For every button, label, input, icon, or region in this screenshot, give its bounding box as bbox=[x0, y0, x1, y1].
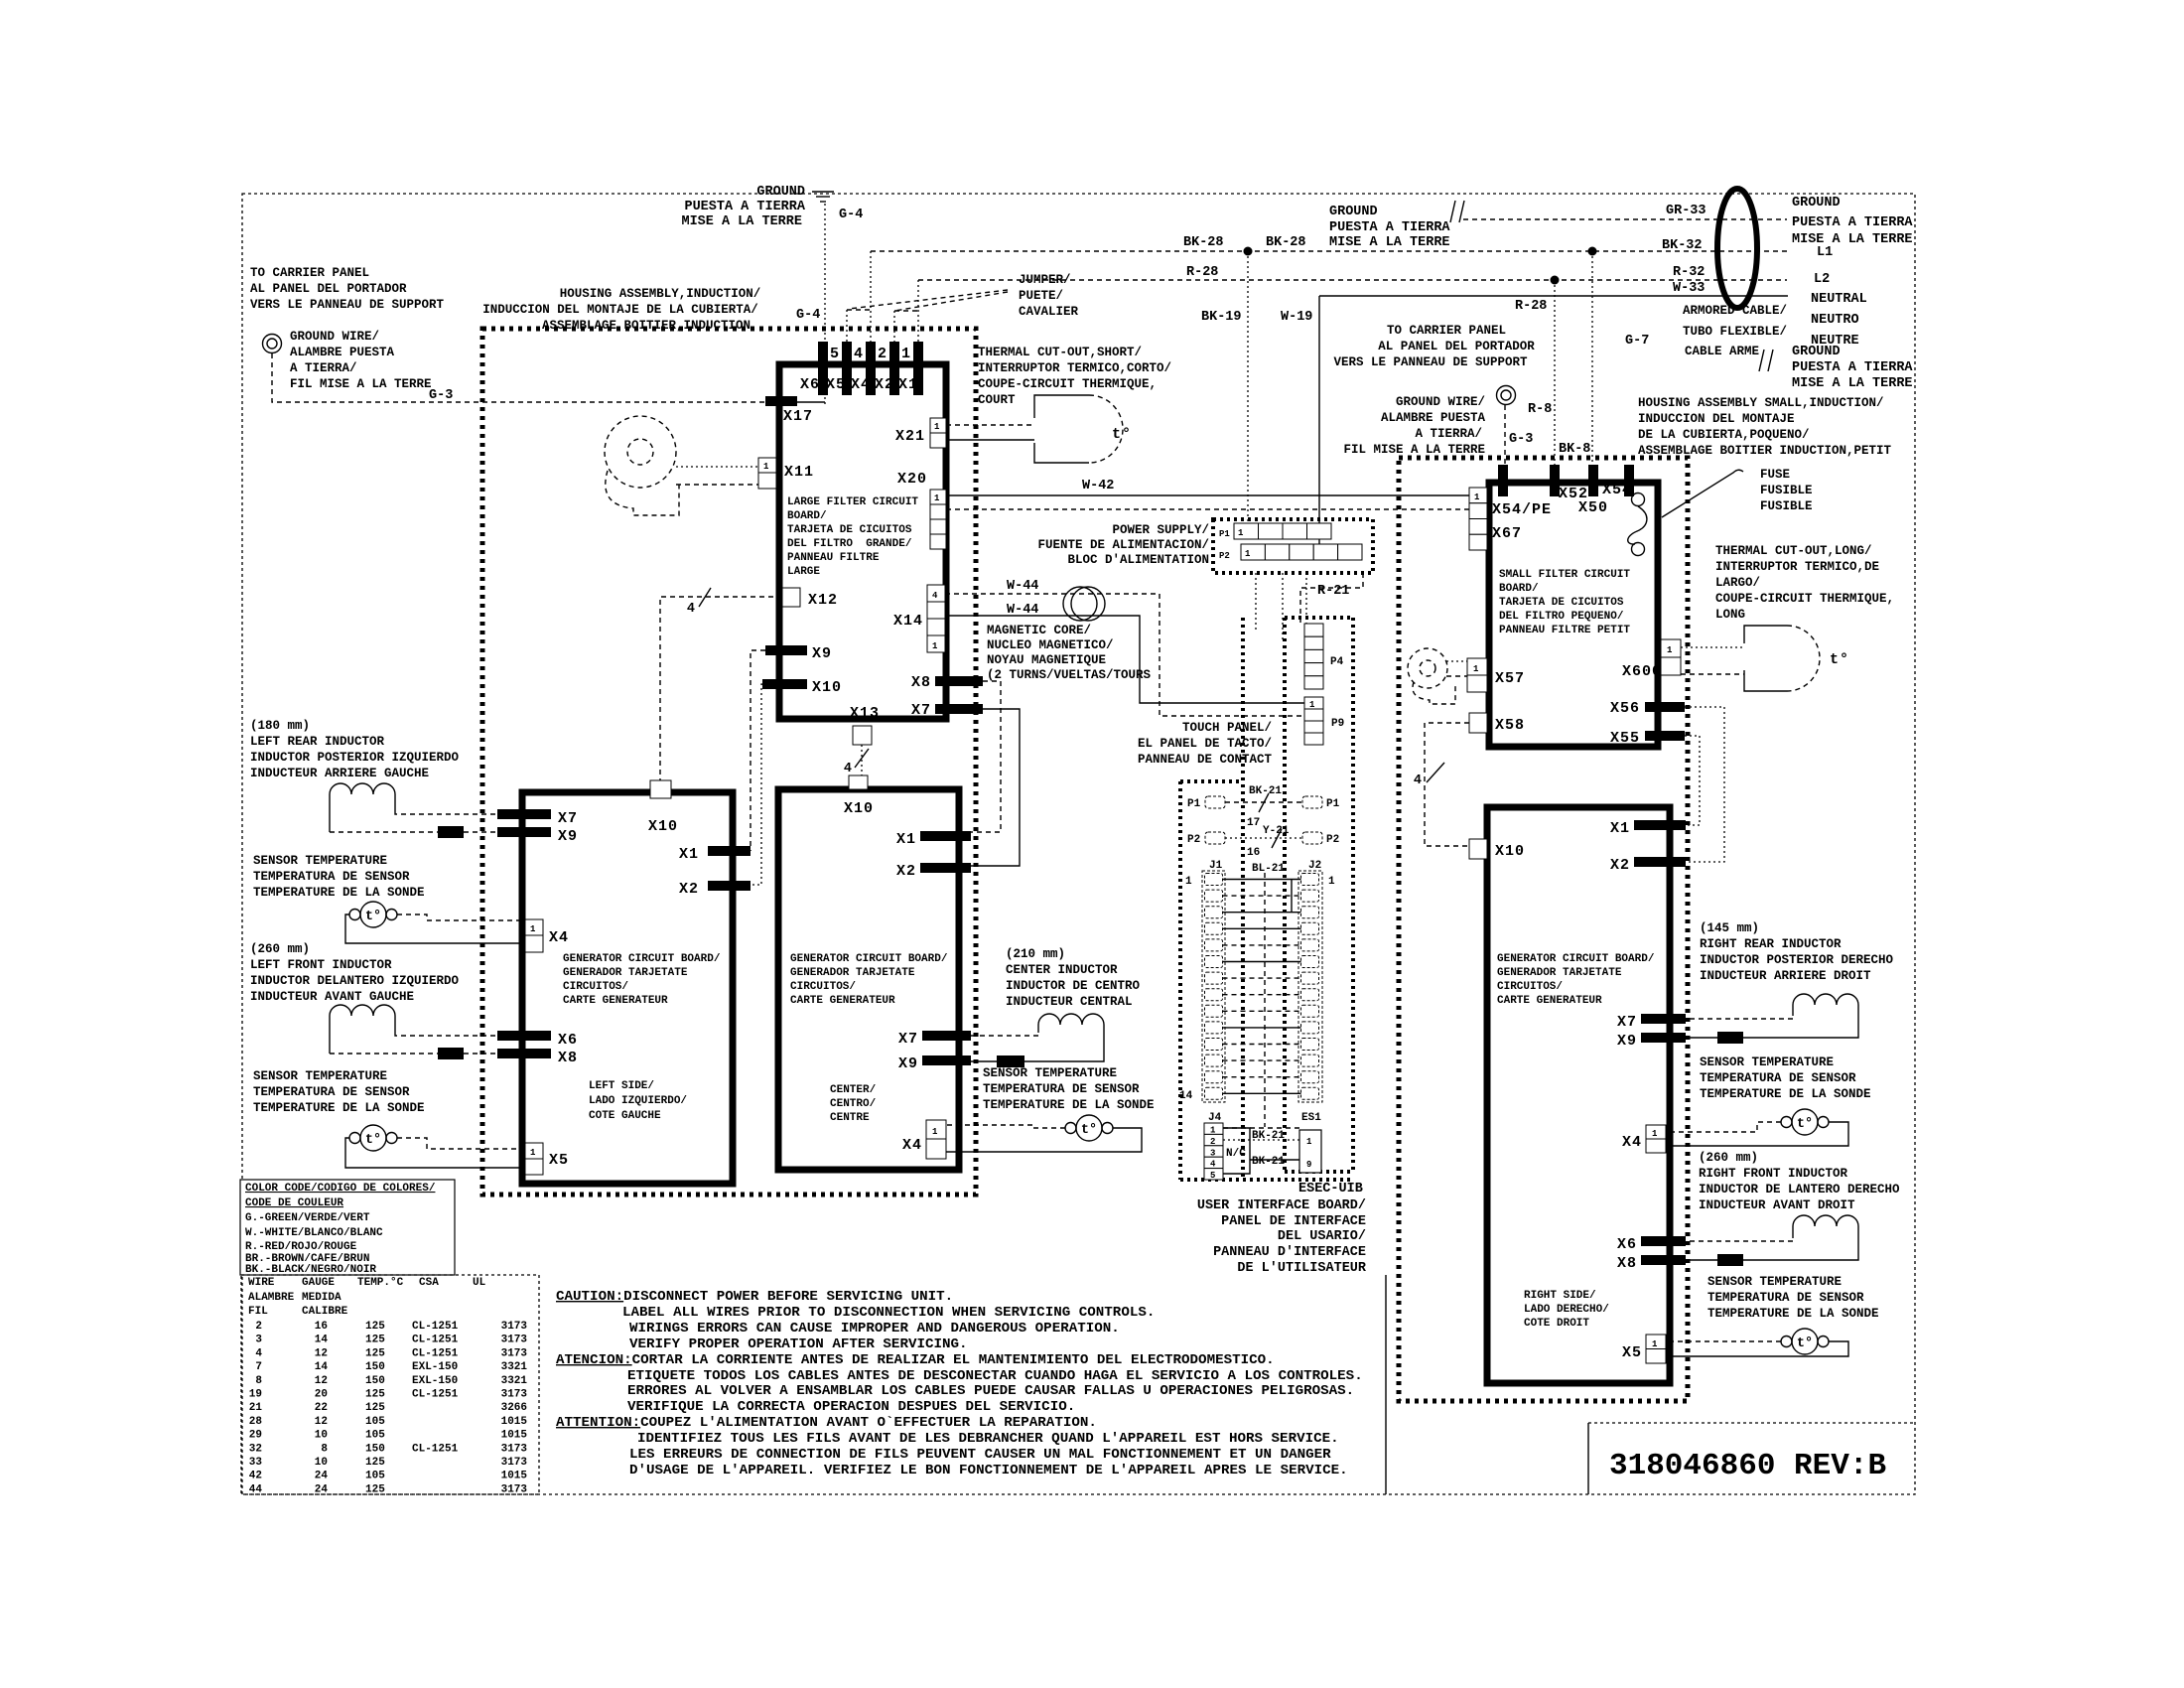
label center inductor bbox=[1006, 947, 1141, 1009]
svg-text:THERMAL CUT-OUT,SHORT/: THERMAL CUT-OUT,SHORT/ bbox=[978, 346, 1142, 359]
svg-text:G-3: G-3 bbox=[429, 388, 453, 403]
svg-text:1015: 1015 bbox=[501, 1416, 528, 1428]
svg-text:X55: X55 bbox=[1610, 730, 1640, 747]
svg-text:DE LA CUBIERTA,POQUENO/: DE LA CUBIERTA,POQUENO/ bbox=[1638, 428, 1810, 442]
label sensor temperature right 2 bbox=[1707, 1275, 1879, 1321]
armored cable oval bbox=[1717, 189, 1757, 308]
svg-text:CL-1251: CL-1251 bbox=[412, 1389, 459, 1401]
svg-text:1: 1 bbox=[1210, 1126, 1216, 1136]
svg-text:G.-GREEN/VERDE/VERT: G.-GREEN/VERDE/VERT bbox=[245, 1212, 370, 1224]
svg-text:CL-1251: CL-1251 bbox=[412, 1335, 459, 1346]
svg-text:125: 125 bbox=[365, 1335, 385, 1346]
svg-text:19: 19 bbox=[249, 1389, 262, 1401]
wire X600 to thermal long lower bbox=[1681, 673, 1744, 675]
svg-text:t°: t° bbox=[1797, 1117, 1813, 1132]
svg-text:9: 9 bbox=[1306, 1160, 1311, 1170]
svg-text:3173: 3173 bbox=[501, 1483, 528, 1495]
svg-text:TO CARRIER PANEL: TO CARRIER PANEL bbox=[250, 266, 369, 280]
svg-text:COURT: COURT bbox=[978, 393, 1016, 407]
wire J1-J2 ribbon bbox=[1223, 880, 1301, 1094]
svg-text:BK.-BLACK/NEGRO/NOIR: BK.-BLACK/NEGRO/NOIR bbox=[245, 1264, 376, 1276]
svg-text:PANNEAU FILTRE: PANNEAU FILTRE bbox=[787, 552, 880, 564]
svg-text:WIRE: WIRE bbox=[248, 1277, 275, 1289]
svg-text:EXL-150: EXL-150 bbox=[412, 1375, 458, 1387]
wire sensor right2 to X5 lower bbox=[1666, 1341, 1848, 1356]
svg-text:X10: X10 bbox=[648, 818, 678, 835]
connector P4 touch panel bbox=[1304, 624, 1323, 689]
wire W-42 companion dashed bbox=[946, 508, 1469, 510]
sensor t center bbox=[1065, 1115, 1113, 1141]
svg-text:1: 1 bbox=[1238, 528, 1244, 538]
svg-text:3173: 3173 bbox=[501, 1443, 528, 1455]
wire gauge table bbox=[241, 1275, 539, 1495]
svg-text:W-42: W-42 bbox=[1082, 479, 1114, 493]
fan blower right bbox=[1408, 648, 1455, 704]
svg-text:INDUCTEUR AVANT GAUCHE: INDUCTEUR AVANT GAUCHE bbox=[250, 990, 414, 1004]
wire sensor2 to X5 lower bbox=[345, 1138, 525, 1168]
housing assembly induction dotted enclosure bbox=[482, 329, 976, 1195]
connector bar X8 bbox=[935, 676, 983, 686]
sensor t right 1 bbox=[1781, 1109, 1829, 1135]
label touch panel bbox=[1138, 721, 1273, 767]
connector ES1 bbox=[1299, 1130, 1321, 1173]
color code table bbox=[240, 1180, 455, 1276]
svg-text:X1: X1 bbox=[679, 846, 699, 863]
svg-text:X9: X9 bbox=[1617, 1033, 1637, 1050]
svg-text:SENSOR TEMPERATURE: SENSOR TEMPERATURE bbox=[253, 1069, 387, 1083]
pin bar X52 bbox=[1550, 465, 1560, 496]
connector bar X17 bbox=[765, 396, 797, 406]
wire coil center leads bbox=[971, 1025, 1104, 1061]
label small filter board bbox=[1499, 569, 1630, 636]
wire X21 to thermal short solid bbox=[946, 439, 1034, 441]
wire slash 17 bbox=[1247, 793, 1269, 829]
connector bar X9 center bbox=[922, 1055, 971, 1065]
wire X9 to left board X1 bbox=[751, 650, 765, 851]
touch panel dotted column bbox=[1241, 618, 1245, 1180]
junction dot BK line left bbox=[1244, 247, 1253, 256]
wire R-28 / L2 dashed bbox=[918, 279, 1787, 281]
svg-text:X10: X10 bbox=[844, 800, 874, 817]
ground wire circle symbol left bbox=[263, 335, 282, 353]
svg-text:125: 125 bbox=[365, 1347, 385, 1359]
svg-text:HOUSING ASSEMBLY,INDUCTION/: HOUSING ASSEMBLY,INDUCTION/ bbox=[560, 287, 761, 301]
svg-text:INDUCTOR DELANTERO IZQUIERDO: INDUCTOR DELANTERO IZQUIERDO bbox=[250, 974, 460, 988]
pin bar X50 bbox=[1588, 465, 1598, 496]
ground double-bar symbol G-7 bbox=[1759, 350, 1773, 371]
wire W-33 neutral solid bbox=[1319, 295, 1788, 297]
svg-text:X1: X1 bbox=[1610, 820, 1630, 837]
svg-text:PANNEAU DE CONTACT: PANNEAU DE CONTACT bbox=[1138, 753, 1273, 767]
svg-text:TO CARRIER PANEL: TO CARRIER PANEL bbox=[1387, 324, 1506, 338]
svg-text:32: 32 bbox=[249, 1443, 262, 1455]
svg-text:INTERRUPTOR TERMICO,DE: INTERRUPTOR TERMICO,DE bbox=[1715, 560, 1879, 574]
svg-text:CIRCUITOS/: CIRCUITOS/ bbox=[1497, 981, 1563, 993]
label housing assembly small bbox=[1638, 396, 1892, 458]
svg-text:X54/PE: X54/PE bbox=[1492, 501, 1552, 518]
svg-text:3266: 3266 bbox=[501, 1402, 527, 1414]
ferrite bead left front bbox=[438, 1048, 464, 1059]
svg-text:IDENTIFIEZ TOUS LES FILS AVANT: IDENTIFIEZ TOUS LES FILS AVANT DE LES DE… bbox=[637, 1431, 1339, 1447]
svg-text:X56: X56 bbox=[1610, 700, 1640, 717]
connector X54/PE cells bbox=[1469, 488, 1487, 550]
svg-text:1: 1 bbox=[1667, 645, 1673, 655]
svg-text:3173: 3173 bbox=[501, 1321, 528, 1333]
svg-text:X57: X57 bbox=[1495, 670, 1525, 687]
svg-text:INDUCTOR DE CENTRO: INDUCTOR DE CENTRO bbox=[1006, 979, 1141, 993]
svg-text:PUESTA A TIERRA: PUESTA A TIERRA bbox=[1792, 360, 1913, 375]
svg-text:INDUCTEUR ARRIERE GAUCHE: INDUCTEUR ARRIERE GAUCHE bbox=[250, 767, 429, 780]
svg-text:1: 1 bbox=[1185, 876, 1192, 888]
label armored cable bbox=[1683, 304, 1787, 358]
housing assembly small dotted enclosure bbox=[1399, 458, 1688, 1401]
svg-text:VERS LE PANNEAU DE SUPPORT: VERS LE PANNEAU DE SUPPORT bbox=[250, 298, 445, 312]
inductor left front coil bbox=[330, 1005, 395, 1016]
wire BK-19 vertical to power supply bbox=[1247, 251, 1249, 524]
svg-text:1: 1 bbox=[1474, 492, 1480, 502]
svg-text:3173: 3173 bbox=[501, 1347, 528, 1359]
svg-text:R-28: R-28 bbox=[1186, 265, 1218, 280]
svg-text:CENTER INDUCTOR: CENTER INDUCTOR bbox=[1006, 963, 1118, 977]
svg-text:LABEL ALL WIRES PRIOR TO DISCO: LABEL ALL WIRES PRIOR TO DISCONNECTION W… bbox=[622, 1305, 1155, 1321]
wire X56 to X2 right bbox=[1685, 707, 1724, 862]
svg-text:TEMPERATURA DE SENSOR: TEMPERATURA DE SENSOR bbox=[983, 1082, 1140, 1096]
svg-text:4: 4 bbox=[844, 762, 852, 776]
connector bar X2 center bbox=[920, 863, 971, 873]
svg-text:10: 10 bbox=[315, 1457, 328, 1469]
svg-text:LARGE: LARGE bbox=[787, 566, 820, 578]
label left side bbox=[589, 1080, 687, 1122]
ground wire circle symbol right bbox=[1497, 386, 1516, 405]
connector X10 left board bbox=[650, 780, 671, 798]
fuse symbol bbox=[1628, 470, 1743, 555]
svg-text:G-7: G-7 bbox=[1625, 334, 1649, 349]
label to carrier panel left bbox=[250, 266, 445, 312]
connector X600 bbox=[1661, 639, 1681, 675]
svg-text:X2: X2 bbox=[679, 881, 699, 898]
svg-text:14: 14 bbox=[315, 1335, 329, 1346]
svg-text:ALAMBRE PUESTA: ALAMBRE PUESTA bbox=[1381, 411, 1486, 425]
svg-text:X58: X58 bbox=[1495, 717, 1525, 734]
wire X7 to center board X2 bbox=[971, 709, 1020, 866]
connector bar X1 center bbox=[920, 831, 971, 841]
label user interface board bbox=[1197, 1198, 1367, 1276]
connector bar X7 center bbox=[922, 1031, 971, 1041]
svg-text:COUPE-CIRCUIT THERMIQUE,: COUPE-CIRCUIT THERMIQUE, bbox=[1715, 592, 1894, 606]
label thermal cut-out short bbox=[978, 346, 1171, 407]
svg-text:1: 1 bbox=[934, 493, 940, 503]
inductor left rear coil bbox=[330, 783, 395, 794]
svg-text:VERIFY PROPER OPERATION AFTER: VERIFY PROPER OPERATION AFTER SERVICING. bbox=[629, 1336, 968, 1352]
wire jumper pointer lines bbox=[849, 290, 1008, 309]
svg-text:W-44: W-44 bbox=[1007, 579, 1038, 594]
svg-text:BL-21: BL-21 bbox=[1252, 863, 1285, 875]
svg-text:INTERRUPTOR TERMICO,CORTO/: INTERRUPTOR TERMICO,CORTO/ bbox=[978, 361, 1171, 375]
svg-text:1: 1 bbox=[1306, 1137, 1312, 1147]
svg-text:GROUND: GROUND bbox=[1792, 345, 1841, 359]
svg-text:ERRORES AL VOLVER A ENSAMBLAR: ERRORES AL VOLVER A ENSAMBLAR LOS CABLES… bbox=[627, 1383, 1354, 1399]
rev box bbox=[1588, 1423, 1915, 1494]
generator circuit board left bbox=[522, 792, 733, 1184]
wire power supply to touch panel b bbox=[1282, 573, 1284, 642]
svg-text:G-4: G-4 bbox=[796, 308, 820, 323]
svg-text:LONG: LONG bbox=[1715, 608, 1745, 622]
svg-text:MISE A LA TERRE: MISE A LA TERRE bbox=[1792, 376, 1913, 391]
connector bar X6 left bbox=[497, 1031, 551, 1041]
svg-text:44: 44 bbox=[249, 1483, 263, 1495]
label generator board center bbox=[790, 953, 948, 1007]
svg-text:CABLE ARME: CABLE ARME bbox=[1685, 345, 1759, 358]
svg-text:GROUND: GROUND bbox=[1792, 196, 1841, 211]
svg-text:W-33: W-33 bbox=[1673, 281, 1705, 296]
svg-text:3173: 3173 bbox=[501, 1389, 528, 1401]
svg-text:ETIQUETE TODOS LOS CABLES ANTE: ETIQUETE TODOS LOS CABLES ANTES DE DESCO… bbox=[627, 1368, 1363, 1384]
svg-text:CIRCUITOS/: CIRCUITOS/ bbox=[790, 981, 856, 993]
svg-text:LEFT SIDE/: LEFT SIDE/ bbox=[589, 1080, 654, 1092]
thermal cut-out short symbol bbox=[1034, 395, 1132, 463]
wire slash 4 marker lower bbox=[844, 749, 869, 776]
svg-text:PANNEAU FILTRE PETIT: PANNEAU FILTRE PETIT bbox=[1499, 625, 1630, 636]
connector bar X9 bbox=[765, 645, 807, 655]
svg-text:X20: X20 bbox=[897, 471, 927, 488]
svg-text:CENTER/: CENTER/ bbox=[830, 1084, 877, 1096]
svg-text:AL PANEL DEL PORTADOR: AL PANEL DEL PORTADOR bbox=[1378, 340, 1535, 353]
wire power supply to touch panel a bbox=[1255, 573, 1257, 630]
sensor t left 1 bbox=[349, 902, 397, 927]
svg-text:P2: P2 bbox=[1219, 551, 1230, 561]
svg-text:8: 8 bbox=[255, 1375, 262, 1387]
wire W neutral vertical to power supply bbox=[1318, 296, 1320, 545]
svg-text:X5: X5 bbox=[1622, 1344, 1642, 1361]
connector X58 bbox=[1469, 713, 1487, 733]
ferrite bead left rear bbox=[438, 826, 464, 838]
svg-text:CENTRO/: CENTRO/ bbox=[830, 1098, 877, 1110]
wire coil left front leads bbox=[330, 1016, 497, 1054]
svg-text:INDUCCION DEL MONTAJE: INDUCCION DEL MONTAJE bbox=[1638, 412, 1795, 426]
svg-text:PANNEAU D'INTERFACE: PANNEAU D'INTERFACE bbox=[1213, 1245, 1366, 1260]
label ground wire right bbox=[1343, 395, 1485, 457]
pin bar PE small bbox=[1498, 465, 1508, 496]
svg-text:BOARD/: BOARD/ bbox=[1499, 583, 1539, 595]
svg-text:NEUTRAL: NEUTRAL bbox=[1811, 292, 1867, 307]
svg-text:4: 4 bbox=[932, 591, 938, 601]
wire sensor2 to X5 upper bbox=[397, 1138, 525, 1149]
svg-text:TEMPERATURE DE LA SONDE: TEMPERATURE DE LA SONDE bbox=[983, 1098, 1155, 1112]
svg-text:1: 1 bbox=[1473, 664, 1479, 674]
wire R-21 bbox=[1300, 573, 1363, 624]
pin bar X54 bbox=[1624, 465, 1634, 496]
svg-text:PANEL DE INTERFACE: PANEL DE INTERFACE bbox=[1221, 1214, 1366, 1229]
svg-text:WIRINGS ERRORS CAN CAUSE IMPRO: WIRINGS ERRORS CAN CAUSE IMPROPER AND DA… bbox=[629, 1321, 1120, 1336]
svg-text:DEL FILTRO GRANDE/: DEL FILTRO GRANDE/ bbox=[787, 538, 912, 550]
svg-text:150: 150 bbox=[365, 1361, 385, 1373]
wire coil right rear leads bbox=[1686, 1005, 1858, 1038]
svg-text:GENERATOR CIRCUIT BOARD/: GENERATOR CIRCUIT BOARD/ bbox=[790, 953, 948, 965]
svg-text:CL-1251: CL-1251 bbox=[412, 1347, 459, 1359]
svg-text:X50: X50 bbox=[1578, 499, 1608, 516]
svg-text:t°: t° bbox=[1112, 426, 1132, 443]
svg-text:ARMORED CABLE/: ARMORED CABLE/ bbox=[1683, 304, 1787, 318]
svg-text:NEUTRO: NEUTRO bbox=[1811, 313, 1859, 328]
svg-text:t°: t° bbox=[1081, 1123, 1097, 1138]
svg-text:GENERADOR TARJETATE: GENERADOR TARJETATE bbox=[1497, 967, 1622, 979]
svg-text:RIGHT FRONT INDUCTOR: RIGHT FRONT INDUCTOR bbox=[1699, 1167, 1848, 1181]
svg-text:(2 TURNS/VUELTAS/TOURS: (2 TURNS/VUELTAS/TOURS bbox=[987, 668, 1152, 682]
svg-text:FIL: FIL bbox=[248, 1306, 268, 1318]
svg-text:MISE A LA TERRE: MISE A LA TERRE bbox=[1329, 235, 1450, 250]
svg-text:VERS LE PANNEAU DE SUPPORT: VERS LE PANNEAU DE SUPPORT bbox=[1333, 355, 1528, 369]
svg-text:29: 29 bbox=[249, 1430, 262, 1442]
label large filter board bbox=[787, 496, 918, 578]
svg-text:G-3: G-3 bbox=[1509, 432, 1533, 447]
svg-text:CL-1251: CL-1251 bbox=[412, 1321, 459, 1333]
svg-text:NUCLEO MAGNETICO/: NUCLEO MAGNETICO/ bbox=[987, 638, 1114, 652]
svg-text:X1: X1 bbox=[898, 376, 918, 393]
svg-text:GROUND: GROUND bbox=[756, 185, 805, 200]
svg-text:X6: X6 bbox=[1617, 1236, 1637, 1253]
wire sensor1 to X4 lower bbox=[345, 914, 525, 943]
svg-text:D'USAGE DE L'APPAREIL. VERIFIE: D'USAGE DE L'APPAREIL. VERIFIEZ LE BON F… bbox=[629, 1463, 1348, 1478]
svg-text:LADO IZQUIERDO/: LADO IZQUIERDO/ bbox=[589, 1095, 687, 1107]
svg-text:LADO DERECHO/: LADO DERECHO/ bbox=[1524, 1304, 1609, 1316]
svg-text:BK-8: BK-8 bbox=[1559, 442, 1590, 457]
connector J1 strip bbox=[1202, 871, 1225, 1102]
svg-text:MAGNETIC CORE/: MAGNETIC CORE/ bbox=[987, 624, 1091, 637]
svg-text:1: 1 bbox=[1309, 700, 1315, 710]
svg-text:TUBO FLEXIBLE/: TUBO FLEXIBLE/ bbox=[1683, 325, 1787, 339]
svg-text:2: 2 bbox=[1210, 1137, 1215, 1147]
connector X5 left bbox=[525, 1143, 543, 1175]
svg-text:1: 1 bbox=[1652, 1129, 1658, 1139]
svg-text:SENSOR TEMPERATURE: SENSOR TEMPERATURE bbox=[1700, 1055, 1834, 1069]
label power supply bbox=[1037, 523, 1209, 567]
svg-text:X4: X4 bbox=[851, 376, 871, 393]
pin bar X2 bbox=[889, 342, 899, 395]
svg-text:125: 125 bbox=[365, 1389, 385, 1401]
svg-text:GR-33: GR-33 bbox=[1666, 204, 1706, 218]
svg-text:SENSOR TEMPERATURE: SENSOR TEMPERATURE bbox=[1707, 1275, 1842, 1289]
wire fan to X11 upper bbox=[676, 466, 758, 468]
svg-text:X12: X12 bbox=[808, 592, 838, 609]
svg-text:1: 1 bbox=[901, 346, 911, 362]
svg-text:22: 22 bbox=[315, 1402, 328, 1414]
svg-text:(210 mm): (210 mm) bbox=[1006, 947, 1065, 961]
svg-text:1: 1 bbox=[763, 462, 769, 472]
wire W-42 solid bbox=[946, 494, 1469, 496]
connector bar X10 bbox=[762, 679, 807, 689]
connector X13 bbox=[853, 726, 872, 745]
svg-text:TEMP.°C: TEMP.°C bbox=[357, 1277, 404, 1289]
svg-text:X6: X6 bbox=[558, 1032, 578, 1049]
svg-text:3321: 3321 bbox=[501, 1361, 528, 1373]
connector bar X7 right bbox=[1641, 1014, 1686, 1024]
svg-text:1015: 1015 bbox=[501, 1471, 528, 1482]
connector bar X6 right bbox=[1641, 1236, 1686, 1246]
svg-text:P1: P1 bbox=[1219, 529, 1230, 539]
svg-text:USER INTERFACE BOARD/: USER INTERFACE BOARD/ bbox=[1197, 1198, 1366, 1213]
svg-text:GENERATOR CIRCUIT BOARD/: GENERATOR CIRCUIT BOARD/ bbox=[1497, 953, 1655, 965]
svg-text:X9: X9 bbox=[558, 828, 578, 845]
label left front inductor bbox=[250, 942, 460, 1004]
touch panel dotted enclosure bbox=[1285, 618, 1353, 1172]
svg-text:GENERADOR TARJETATE: GENERADOR TARJETATE bbox=[563, 967, 688, 979]
svg-text:CAVALIER: CAVALIER bbox=[1019, 305, 1079, 319]
wire X58 to X10 right bbox=[1425, 723, 1469, 846]
svg-text:COLOR CODE/CODIGO DE COLORES/: COLOR CODE/CODIGO DE COLORES/ bbox=[245, 1183, 436, 1195]
svg-text:ESEC-UIB: ESEC-UIB bbox=[1298, 1182, 1363, 1196]
connector X14 bbox=[927, 585, 945, 652]
svg-text:INDUCTOR POSTERIOR IZQUIERDO: INDUCTOR POSTERIOR IZQUIERDO bbox=[250, 751, 460, 765]
svg-text:BLOC D'ALIMENTATION: BLOC D'ALIMENTATION bbox=[1067, 553, 1209, 567]
svg-text:5: 5 bbox=[1210, 1171, 1215, 1181]
svg-text:P2: P2 bbox=[1326, 834, 1339, 846]
svg-text:42: 42 bbox=[249, 1471, 262, 1482]
svg-text:X13: X13 bbox=[850, 705, 880, 722]
svg-text:LES ERREURS DE CONNECTION DE F: LES ERREURS DE CONNECTION DE FILS PEUVEN… bbox=[629, 1447, 1331, 1463]
svg-text:A TIERRA/: A TIERRA/ bbox=[290, 361, 357, 375]
wire sensor center to X4 lower bbox=[946, 1128, 1142, 1152]
svg-text:PUETE/: PUETE/ bbox=[1019, 289, 1063, 303]
label ground right bbox=[1792, 345, 1913, 391]
svg-text:GROUND WIRE/: GROUND WIRE/ bbox=[290, 330, 379, 344]
svg-text:ATTENTION:COUPEZ L'ALIMENTATIO: ATTENTION:COUPEZ L'ALIMENTATION AVANT O`… bbox=[556, 1415, 1097, 1431]
svg-text:TEMPERATURE DE LA SONDE: TEMPERATURE DE LA SONDE bbox=[253, 1101, 425, 1115]
generator circuit board center bbox=[778, 789, 959, 1170]
svg-text:t°: t° bbox=[365, 1133, 381, 1148]
svg-text:X6: X6 bbox=[800, 376, 820, 393]
wire J4 pin1 to ES1 dashed bbox=[1223, 1127, 1299, 1129]
svg-text:AL PANEL DEL PORTADOR: AL PANEL DEL PORTADOR bbox=[250, 282, 407, 296]
svg-text:ALAMBRE PUESTA: ALAMBRE PUESTA bbox=[290, 346, 395, 359]
svg-text:W.-WHITE/BLANCO/BLANC: W.-WHITE/BLANCO/BLANC bbox=[245, 1227, 383, 1239]
wire sensor right1 to X4 upper bbox=[1666, 1122, 1781, 1132]
wire X55 to X1 right bbox=[1685, 736, 1700, 825]
svg-text:INDUCTEUR CENTRAL: INDUCTEUR CENTRAL bbox=[1006, 995, 1133, 1009]
svg-text:FUSIBLE: FUSIBLE bbox=[1760, 499, 1813, 513]
svg-text:(145 mm): (145 mm) bbox=[1700, 921, 1759, 935]
svg-text:X54: X54 bbox=[1602, 482, 1632, 498]
svg-text:1: 1 bbox=[932, 641, 938, 651]
svg-text:X2: X2 bbox=[1610, 857, 1630, 874]
svg-text:A TIERRA/: A TIERRA/ bbox=[1415, 427, 1482, 441]
svg-text:X5: X5 bbox=[826, 376, 846, 393]
label left rear inductor bbox=[250, 719, 460, 780]
svg-text:X4: X4 bbox=[1622, 1134, 1642, 1151]
wire X8 to center board X1 bbox=[971, 681, 1001, 832]
svg-text:P1: P1 bbox=[1326, 798, 1340, 810]
label jumper bbox=[1019, 273, 1079, 319]
connector X4 left bbox=[525, 919, 543, 952]
svg-text:318046860 REV:B: 318046860 REV:B bbox=[1609, 1449, 1886, 1483]
inductor right front coil bbox=[1793, 1215, 1858, 1226]
label sensor temperature center bbox=[983, 1066, 1155, 1112]
svg-text:X8: X8 bbox=[1617, 1255, 1637, 1272]
svg-text:CL-1251: CL-1251 bbox=[412, 1443, 459, 1455]
wire sensor center to X4 upper bbox=[946, 1125, 1065, 1128]
svg-text:J1: J1 bbox=[1209, 860, 1223, 872]
svg-text:125: 125 bbox=[365, 1457, 385, 1469]
fan blower left bbox=[605, 416, 679, 515]
svg-text:R-32: R-32 bbox=[1673, 265, 1705, 280]
ground label top center bbox=[681, 185, 805, 229]
svg-text:TARJETA DE CICUITOS: TARJETA DE CICUITOS bbox=[787, 524, 912, 536]
svg-text:125: 125 bbox=[365, 1321, 385, 1333]
wire X13 down to center board bbox=[861, 745, 863, 775]
svg-text:X1: X1 bbox=[896, 831, 916, 848]
connector bar X1 right bbox=[1634, 820, 1686, 830]
label neutral bbox=[1811, 292, 1867, 349]
svg-text:1: 1 bbox=[530, 924, 536, 934]
